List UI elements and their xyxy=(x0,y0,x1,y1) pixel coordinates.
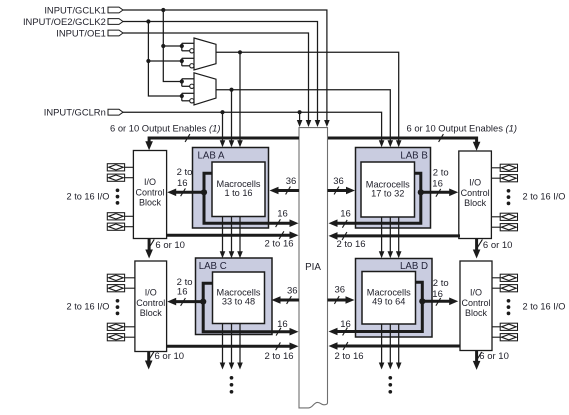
svg-text:16: 16 xyxy=(277,319,288,330)
svg-text:PIA: PIA xyxy=(305,262,321,273)
svg-text:2 to 16 I/O: 2 to 16 I/O xyxy=(67,301,110,311)
svg-text:17 to 32: 17 to 32 xyxy=(371,188,404,198)
svg-text:Block: Block xyxy=(140,308,163,318)
svg-text:2 to: 2 to xyxy=(177,167,193,178)
svg-text:36: 36 xyxy=(287,286,298,297)
svg-text:16: 16 xyxy=(340,208,351,219)
svg-text:2 to 16: 2 to 16 xyxy=(336,239,365,250)
svg-text:INPUT/OE1: INPUT/OE1 xyxy=(56,27,106,38)
svg-text:INPUT/GCLRn: INPUT/GCLRn xyxy=(44,107,106,118)
svg-text:1 to 16: 1 to 16 xyxy=(224,188,252,198)
svg-text:2 to 16: 2 to 16 xyxy=(334,351,363,362)
svg-text:6 or 10: 6 or 10 xyxy=(155,351,185,362)
svg-text:Block: Block xyxy=(465,308,488,318)
svg-text:16: 16 xyxy=(340,319,351,330)
svg-text:INPUT/OE2/GCLK2: INPUT/OE2/GCLK2 xyxy=(23,16,106,27)
svg-text:LAB A: LAB A xyxy=(198,151,225,162)
svg-text:6 or 10 Output Enables (1): 6 or 10 Output Enables (1) xyxy=(110,123,221,134)
svg-text:6 or 10: 6 or 10 xyxy=(479,351,509,362)
svg-text:2 to 16 I/O: 2 to 16 I/O xyxy=(523,301,566,311)
svg-text:16: 16 xyxy=(177,178,188,189)
svg-text:16: 16 xyxy=(432,179,443,190)
svg-text:6 or 10 Output Enables (1): 6 or 10 Output Enables (1) xyxy=(407,123,518,134)
svg-text:LAB D: LAB D xyxy=(400,261,428,272)
svg-text:2 to 16: 2 to 16 xyxy=(264,238,293,249)
svg-text:Control: Control xyxy=(135,187,164,197)
svg-text:2 to: 2 to xyxy=(433,168,449,179)
svg-text:33 to 48: 33 to 48 xyxy=(222,297,255,307)
svg-text:49 to 64: 49 to 64 xyxy=(372,297,405,307)
svg-text:16: 16 xyxy=(177,286,188,297)
svg-text:36: 36 xyxy=(286,176,297,187)
svg-text:2 to 16 I/O: 2 to 16 I/O xyxy=(67,191,110,201)
svg-text:16: 16 xyxy=(277,208,288,219)
svg-text:6 or 10: 6 or 10 xyxy=(483,240,513,251)
svg-text:Control: Control xyxy=(461,298,490,308)
svg-text:I/O: I/O xyxy=(470,288,482,298)
svg-text:2 to 16: 2 to 16 xyxy=(264,351,293,362)
svg-text:I/O: I/O xyxy=(469,178,481,188)
svg-text:36: 36 xyxy=(333,176,344,187)
svg-text:16: 16 xyxy=(432,289,443,300)
svg-text:2 to 16 I/O: 2 to 16 I/O xyxy=(523,191,566,201)
svg-text:I/O: I/O xyxy=(145,288,157,298)
svg-text:Control: Control xyxy=(136,298,165,308)
svg-text:Block: Block xyxy=(139,198,162,208)
svg-text:I/O: I/O xyxy=(144,177,156,187)
svg-text:6 or 10: 6 or 10 xyxy=(155,240,185,251)
svg-text:36: 36 xyxy=(335,285,346,296)
svg-text:INPUT/GCLK1: INPUT/GCLK1 xyxy=(44,4,105,15)
svg-text:2 to: 2 to xyxy=(433,278,449,289)
svg-text:Block: Block xyxy=(464,198,487,208)
svg-text:LAB B: LAB B xyxy=(400,151,427,162)
svg-text:Control: Control xyxy=(461,188,490,198)
svg-text:LAB C: LAB C xyxy=(199,261,227,272)
